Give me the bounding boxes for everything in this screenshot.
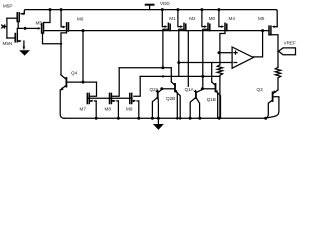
svg-text:VDD: VDD <box>160 1 170 6</box>
svg-text:M5N: M5N <box>3 41 13 46</box>
svg-text:M9: M9 <box>126 107 133 112</box>
svg-text:M8: M8 <box>105 107 112 112</box>
svg-text:VREF: VREF <box>284 41 296 46</box>
svg-text:M7: M7 <box>80 107 87 112</box>
svg-text:Q1A: Q1A <box>185 87 195 92</box>
svg-text:Q4: Q4 <box>71 71 78 76</box>
svg-text:Q1B: Q1B <box>207 97 216 102</box>
svg-text:M5P: M5P <box>3 4 12 9</box>
svg-text:M5: M5 <box>258 16 265 21</box>
svg-text:M6: M6 <box>77 17 84 22</box>
svg-text:Q2A: Q2A <box>150 87 160 92</box>
svg-text:M4: M4 <box>229 16 236 21</box>
svg-text:M5: M5 <box>36 21 43 26</box>
svg-text:M1: M1 <box>169 16 176 21</box>
svg-text:Q3: Q3 <box>257 87 264 92</box>
svg-text:M0: M0 <box>209 16 216 21</box>
svg-text:Q2B: Q2B <box>166 96 175 101</box>
svg-text:M2: M2 <box>189 16 196 21</box>
